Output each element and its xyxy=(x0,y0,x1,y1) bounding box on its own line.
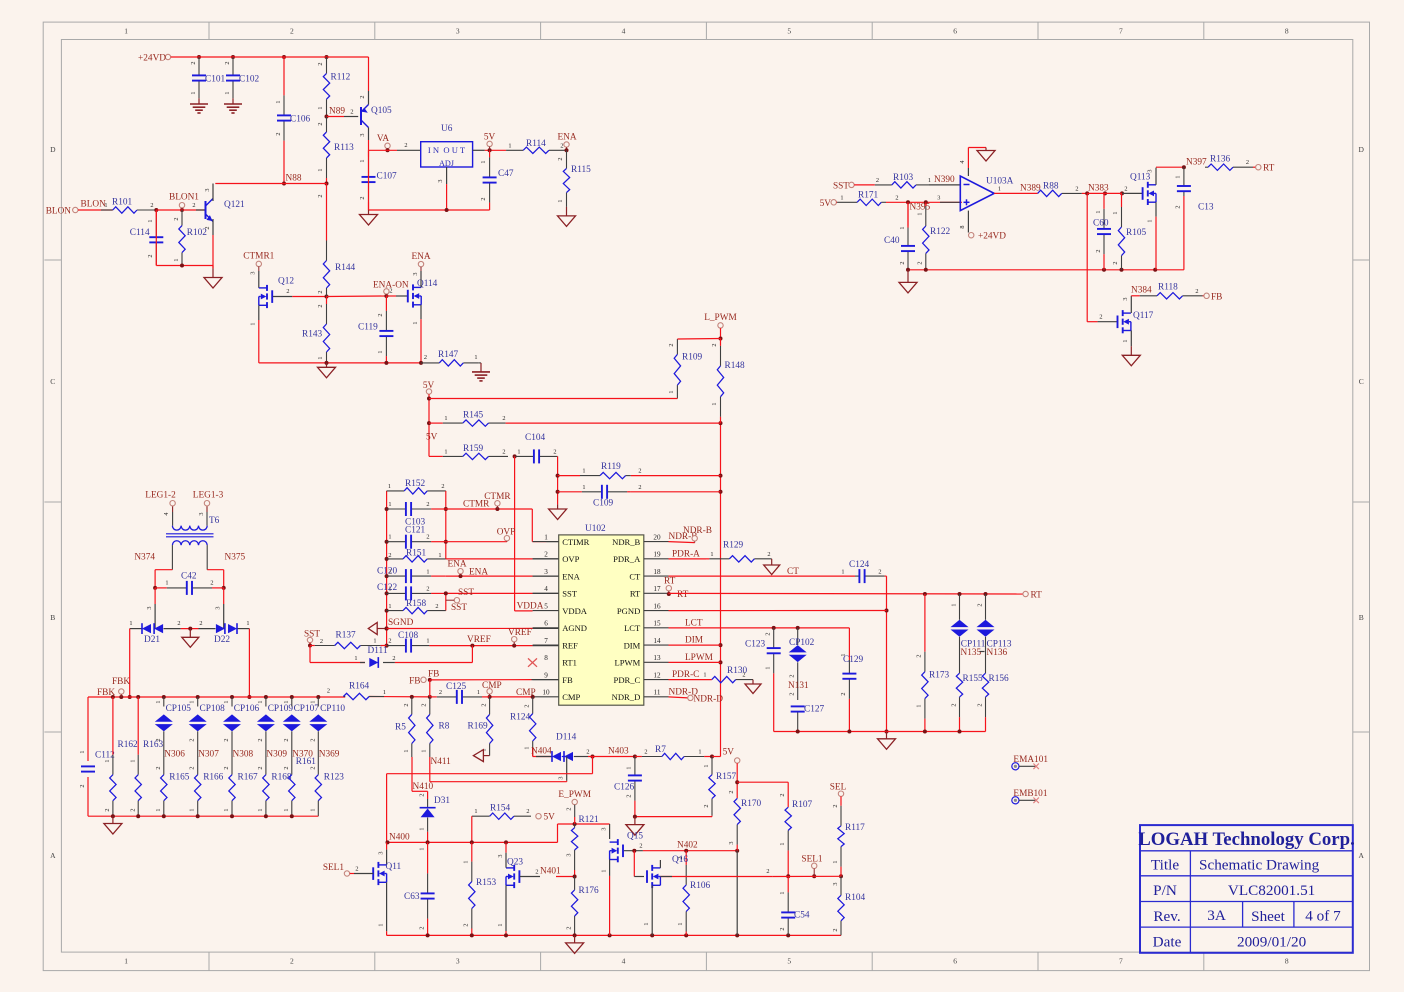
svg-text:1: 1 xyxy=(444,415,447,422)
port ENA (U102) xyxy=(447,560,466,577)
svg-text:9: 9 xyxy=(544,671,548,679)
wire N390 xyxy=(928,175,960,185)
capacitor C109 xyxy=(558,484,642,509)
svg-text:2: 2 xyxy=(1246,159,1249,166)
svg-text:1: 1 xyxy=(419,827,426,830)
svg-text:2: 2 xyxy=(210,580,213,587)
svg-text:R122: R122 xyxy=(930,227,950,237)
port FBK xyxy=(97,677,130,698)
svg-text:Q12: Q12 xyxy=(278,277,294,287)
svg-text:2: 2 xyxy=(779,927,786,930)
wire D2x center ground xyxy=(181,627,199,638)
svg-text:5V: 5V xyxy=(723,748,735,758)
svg-text:2: 2 xyxy=(129,808,136,811)
resistor R168 xyxy=(257,773,292,817)
resistor R109 xyxy=(668,339,702,399)
svg-text:5V: 5V xyxy=(544,813,556,823)
svg-text:1: 1 xyxy=(246,620,249,627)
diode D111 xyxy=(368,646,388,668)
svg-text:2: 2 xyxy=(1075,185,1078,192)
wire Q121 emitter rail xyxy=(156,210,213,268)
capacitor C13 xyxy=(1175,167,1214,212)
svg-text:20: 20 xyxy=(653,533,661,541)
svg-text:C42: C42 xyxy=(181,572,197,582)
svg-text:3: 3 xyxy=(456,27,460,36)
resistor R165 xyxy=(155,773,190,817)
svg-text:2: 2 xyxy=(481,703,488,706)
resistor R176 xyxy=(566,877,599,936)
svg-text:3: 3 xyxy=(215,606,222,609)
transistor Q15 (MOSFET) xyxy=(610,832,644,863)
wire U6 ground rail xyxy=(369,150,490,212)
capacitor C42 xyxy=(155,572,224,595)
wire R109 top xyxy=(677,338,720,341)
wire BLON xyxy=(78,200,113,211)
svg-text:C122: C122 xyxy=(377,583,397,593)
port CTMR xyxy=(484,492,511,509)
svg-text:1: 1 xyxy=(257,808,264,811)
svg-text:1: 1 xyxy=(104,202,107,209)
svg-text:2: 2 xyxy=(317,122,324,125)
wire Q117 drain N384 xyxy=(1122,285,1152,313)
svg-text:LCT: LCT xyxy=(685,618,703,628)
svg-text:N369: N369 xyxy=(319,750,340,760)
ground (triangle) C126 xyxy=(626,817,644,836)
port RT (pin17) xyxy=(664,577,689,600)
resistor R118 xyxy=(1140,282,1204,299)
svg-text:REF: REF xyxy=(562,640,578,650)
wire ENA-ON to Q114 gate xyxy=(386,295,407,297)
svg-text:R147: R147 xyxy=(438,350,458,360)
svg-text:1: 1 xyxy=(1147,219,1154,222)
capacitor C119 xyxy=(358,296,393,363)
svg-text:+24VD: +24VD xyxy=(138,54,166,64)
svg-text:2: 2 xyxy=(350,109,353,116)
capacitor C54 xyxy=(779,876,810,935)
symbol SGND arrow (R169) xyxy=(473,748,489,762)
transistor Q117 (MOSFET) xyxy=(1118,310,1154,333)
diode D21 (dual) xyxy=(129,620,180,645)
svg-text:DIM: DIM xyxy=(624,640,641,650)
wire D21 center tap xyxy=(154,604,156,629)
svg-text:C120: C120 xyxy=(377,567,397,577)
svg-text:CP108: CP108 xyxy=(200,704,226,714)
svg-text:R109: R109 xyxy=(682,353,702,363)
svg-text:R129: R129 xyxy=(723,541,743,551)
svg-text:2: 2 xyxy=(392,655,395,662)
svg-text:2: 2 xyxy=(779,793,786,796)
capacitor C63 xyxy=(404,842,435,935)
svg-text:CT: CT xyxy=(629,571,641,581)
wire opamp pin4 to ground xyxy=(959,148,986,177)
svg-text:1: 1 xyxy=(438,552,441,559)
transistor Q12 (MOSFET) xyxy=(259,277,295,309)
svg-text:SEL1: SEL1 xyxy=(323,863,345,873)
ground (triangle) rail2 xyxy=(878,732,896,750)
svg-text:1: 1 xyxy=(840,194,843,201)
port SST (R137) xyxy=(304,630,320,643)
svg-text:1: 1 xyxy=(421,749,428,752)
ground (triangle) C104 xyxy=(549,504,567,519)
svg-text:CP110: CP110 xyxy=(320,704,345,714)
transistor Q113 (MOSFET) xyxy=(1130,173,1156,206)
svg-text:1: 1 xyxy=(426,638,429,645)
wire ENA-ON row xyxy=(327,294,389,298)
svg-text:CP107: CP107 xyxy=(294,704,320,714)
svg-text:2: 2 xyxy=(917,261,924,264)
svg-text:4: 4 xyxy=(622,27,626,36)
svg-text:P/N: P/N xyxy=(1153,882,1177,899)
svg-text:1: 1 xyxy=(377,350,384,353)
resistor R130 xyxy=(712,666,753,683)
transistor Q23 (MOSFET) xyxy=(506,858,523,889)
svg-text:1: 1 xyxy=(1112,211,1119,214)
svg-text:2: 2 xyxy=(290,957,294,966)
svg-text:2: 2 xyxy=(404,142,407,149)
svg-text:2: 2 xyxy=(766,868,769,875)
resistor R169 xyxy=(468,697,493,752)
svg-text:7: 7 xyxy=(544,637,548,645)
svg-text:PGND: PGND xyxy=(617,606,640,616)
svg-text:2: 2 xyxy=(463,923,470,926)
svg-text:5V: 5V xyxy=(423,381,435,391)
svg-text:C63: C63 xyxy=(404,892,420,902)
svg-text:Q15: Q15 xyxy=(627,832,643,842)
svg-text:CT: CT xyxy=(787,567,799,577)
capacitor CP107 (polarized) xyxy=(283,697,319,748)
node N89 xyxy=(325,107,354,119)
svg-text:1: 1 xyxy=(703,672,706,679)
wire CTMR1 xyxy=(250,267,259,288)
svg-text:R144: R144 xyxy=(335,263,355,273)
resistor R157 xyxy=(703,757,736,816)
svg-text:SGND: SGND xyxy=(388,618,414,628)
svg-text:1: 1 xyxy=(582,484,585,491)
svg-text:1: 1 xyxy=(223,700,230,703)
svg-text:C121: C121 xyxy=(405,526,425,536)
svg-text:R104: R104 xyxy=(845,893,865,903)
svg-text:RT: RT xyxy=(664,577,676,587)
ground (triangle) D21/D22 xyxy=(182,637,199,647)
wire N403 row xyxy=(588,747,648,759)
wire N402 to rail xyxy=(736,851,738,936)
svg-text:3: 3 xyxy=(1122,297,1129,300)
svg-text:2: 2 xyxy=(435,603,438,610)
resistor R88 xyxy=(1038,181,1088,196)
port 5V (R145) xyxy=(423,381,435,394)
svg-text:N136: N136 xyxy=(987,648,1008,658)
wire N383 down to Q117 xyxy=(1087,193,1117,321)
resistor R123 xyxy=(309,773,344,817)
resistor R124 xyxy=(510,697,536,757)
svg-text:1: 1 xyxy=(383,689,386,696)
svg-text:1: 1 xyxy=(677,922,684,925)
port SST (U102) xyxy=(446,588,475,613)
wire Q23 source xyxy=(497,885,506,935)
svg-text:1: 1 xyxy=(557,199,564,202)
svg-text:2: 2 xyxy=(189,766,196,769)
wire C109 to LPWM net xyxy=(631,491,721,493)
svg-text:2: 2 xyxy=(426,501,429,508)
svg-text:1: 1 xyxy=(104,759,111,762)
svg-text:1: 1 xyxy=(517,448,520,455)
svg-text:1: 1 xyxy=(841,568,844,575)
capacitor C124 xyxy=(849,560,887,583)
svg-text:2: 2 xyxy=(767,551,770,558)
svg-text:C108: C108 xyxy=(398,631,418,641)
svg-text:2: 2 xyxy=(104,808,111,811)
port 5V (opamp) xyxy=(820,199,837,209)
svg-text:N401: N401 xyxy=(540,867,561,877)
svg-text:1: 1 xyxy=(388,603,391,610)
resistor R103 xyxy=(875,173,929,188)
wire LCT row xyxy=(669,618,850,660)
svg-text:B: B xyxy=(1359,613,1364,622)
svg-text:3: 3 xyxy=(437,179,444,182)
svg-text:1: 1 xyxy=(257,700,264,703)
svg-text:2: 2 xyxy=(638,468,641,475)
wire D22 to FBK rail xyxy=(247,629,251,699)
svg-text:D21: D21 xyxy=(144,635,160,645)
ground (triangle) opamp xyxy=(977,148,995,162)
svg-text:N308: N308 xyxy=(233,750,254,760)
svg-text:PDR-A: PDR-A xyxy=(672,550,700,560)
svg-text:N309: N309 xyxy=(266,750,287,760)
svg-text:1: 1 xyxy=(317,106,324,109)
capacitor CP109 (polarized) xyxy=(257,697,293,748)
svg-text:R106: R106 xyxy=(690,881,710,891)
node N369 xyxy=(309,748,340,775)
ground (triangle) R130 xyxy=(745,680,761,694)
svg-text:C124: C124 xyxy=(849,560,869,570)
svg-text:3: 3 xyxy=(728,841,735,844)
resistor R114 xyxy=(506,139,565,154)
svg-text:3: 3 xyxy=(497,854,504,857)
junction BLON1 node xyxy=(154,208,184,212)
svg-text:3A: 3A xyxy=(1207,907,1226,924)
wire NDR-B stub xyxy=(669,532,698,542)
svg-text:R117: R117 xyxy=(845,823,865,833)
svg-text:2: 2 xyxy=(586,749,589,756)
svg-text:C13: C13 xyxy=(1198,203,1214,213)
port FB (U102) xyxy=(409,670,439,687)
svg-text:3: 3 xyxy=(558,776,565,779)
svg-text:N135: N135 xyxy=(961,648,982,658)
wire N404 row xyxy=(531,747,552,757)
svg-text:VREF: VREF xyxy=(467,635,491,645)
svg-text:5V: 5V xyxy=(484,133,496,143)
svg-text:C123: C123 xyxy=(745,640,765,650)
svg-text:R8: R8 xyxy=(439,722,450,732)
svg-text:NDR_D: NDR_D xyxy=(612,692,641,702)
wire Q23 drain xyxy=(497,842,506,867)
svg-text:LEG1-2: LEG1-2 xyxy=(145,491,176,501)
svg-text:A: A xyxy=(50,851,56,860)
resistor R106 xyxy=(677,851,710,936)
svg-text:1: 1 xyxy=(477,689,480,696)
port SEL xyxy=(830,783,847,797)
capacitor C127 xyxy=(791,705,825,732)
svg-text:3: 3 xyxy=(601,827,608,830)
svg-text:3: 3 xyxy=(359,133,366,136)
svg-text:R164: R164 xyxy=(349,682,369,692)
resistor R5 xyxy=(395,697,415,757)
node N135 xyxy=(961,648,985,658)
ground (triangle) Q117 xyxy=(1122,355,1140,366)
wire opamp out N389 xyxy=(994,183,1041,193)
svg-text:1: 1 xyxy=(124,957,128,966)
port ENA-ON xyxy=(373,281,409,297)
svg-text:1: 1 xyxy=(359,159,366,162)
svg-text:3: 3 xyxy=(412,272,419,275)
svg-text:R137: R137 xyxy=(336,631,356,641)
svg-text:2: 2 xyxy=(257,738,264,741)
port +24VD (opamp) xyxy=(969,232,1007,242)
resistor R148 xyxy=(711,339,745,424)
resistor R152 xyxy=(387,479,446,494)
resistor R147 xyxy=(421,350,479,366)
svg-text:C119: C119 xyxy=(358,323,378,333)
port NDR-D xyxy=(688,694,724,704)
port ENA (R114) xyxy=(557,133,576,153)
svg-text:R167: R167 xyxy=(238,773,258,783)
svg-text:3: 3 xyxy=(198,512,205,515)
svg-text:C125: C125 xyxy=(446,682,466,692)
wire PDR-A xyxy=(669,550,707,560)
capacitor C114 xyxy=(130,210,164,266)
svg-text:PDR_A: PDR_A xyxy=(613,554,641,564)
svg-text:C127: C127 xyxy=(804,705,824,715)
svg-text:R118: R118 xyxy=(1158,282,1178,292)
resistor R173 xyxy=(916,594,950,732)
op-amp U103A xyxy=(960,176,1013,211)
svg-text:D: D xyxy=(50,145,56,154)
svg-text:SST: SST xyxy=(562,589,578,599)
svg-text:2: 2 xyxy=(765,632,772,635)
svg-text:SEL1: SEL1 xyxy=(801,855,823,865)
node N374 xyxy=(134,553,155,563)
svg-text:2: 2 xyxy=(224,61,231,64)
svg-text:2: 2 xyxy=(147,254,154,257)
svg-text:N88: N88 xyxy=(286,174,302,184)
svg-text:2: 2 xyxy=(480,197,487,200)
svg-text:SST: SST xyxy=(833,181,849,191)
wire BLON1 row xyxy=(156,202,205,210)
svg-text:2: 2 xyxy=(626,794,633,797)
wire N400 rail xyxy=(386,832,558,844)
svg-text:2: 2 xyxy=(1095,249,1102,252)
regulator U6 xyxy=(421,124,473,168)
svg-text:2: 2 xyxy=(668,343,675,346)
svg-text:AGND: AGND xyxy=(562,623,587,633)
svg-text:Q16: Q16 xyxy=(672,855,688,865)
svg-text:4: 4 xyxy=(544,585,548,593)
transistor Q16 (MOSFET) xyxy=(647,855,688,888)
svg-text:15: 15 xyxy=(653,620,661,628)
wire RT row xyxy=(669,592,1023,596)
svg-text:CP106: CP106 xyxy=(234,704,260,714)
svg-text:1: 1 xyxy=(283,700,290,703)
svg-text:CTMR1: CTMR1 xyxy=(243,252,274,262)
svg-text:2: 2 xyxy=(1195,288,1198,295)
svg-text:D114: D114 xyxy=(556,733,577,743)
port BLON xyxy=(46,207,78,217)
connector EMB101 xyxy=(1012,789,1048,804)
svg-text:2: 2 xyxy=(524,704,531,707)
ground (triangle) C107 xyxy=(360,210,378,225)
resistor R129 xyxy=(706,541,772,563)
svg-text:2: 2 xyxy=(789,692,796,695)
transistor Q114 (MOSFET) xyxy=(408,279,438,308)
svg-text:2: 2 xyxy=(177,620,180,627)
svg-text:R152: R152 xyxy=(405,479,425,489)
capacitor CP106 (polarized) xyxy=(223,697,259,748)
resistor R145 xyxy=(429,411,506,427)
svg-text:6: 6 xyxy=(953,957,957,966)
junction R7/R157/LPWM xyxy=(710,755,721,759)
svg-text:2: 2 xyxy=(359,95,366,98)
svg-text:1: 1 xyxy=(1175,175,1182,178)
wire Q12 ground rail xyxy=(259,361,423,365)
wire U6 ADJ xyxy=(437,167,447,210)
svg-text:2: 2 xyxy=(317,194,324,197)
svg-text:N397: N397 xyxy=(1186,157,1207,167)
svg-text:2: 2 xyxy=(317,304,324,307)
wire R157 bottom xyxy=(633,815,712,819)
wire SST stub xyxy=(308,638,323,648)
capacitor C108 xyxy=(387,631,430,653)
wire Q113 drain to N397 xyxy=(1147,157,1207,185)
svg-text:2: 2 xyxy=(377,313,384,316)
resistor R136 xyxy=(1205,155,1256,171)
svg-text:RT: RT xyxy=(1263,164,1275,174)
svg-text:1: 1 xyxy=(899,226,906,229)
svg-text:1: 1 xyxy=(917,212,924,215)
svg-text:2: 2 xyxy=(977,603,984,606)
wire CT vertical xyxy=(885,576,889,733)
wire N374 xyxy=(146,570,172,610)
junction R159/C104/VDDA xyxy=(513,454,517,458)
capacitor C101 xyxy=(190,57,225,98)
resistor R161 xyxy=(283,757,316,816)
wire Q16 source xyxy=(643,885,652,935)
svg-text:1: 1 xyxy=(544,533,548,541)
svg-text:1: 1 xyxy=(124,27,128,36)
svg-text:ENA: ENA xyxy=(562,571,580,581)
port E_PWM xyxy=(558,790,591,824)
wire N89 to Q105 base xyxy=(327,116,359,118)
svg-text:2: 2 xyxy=(79,784,86,787)
capacitor CP113 (polarized) xyxy=(977,594,1012,672)
svg-text:8: 8 xyxy=(1285,957,1289,966)
svg-text:Q105: Q105 xyxy=(371,106,392,116)
svg-text:BLON: BLON xyxy=(46,207,72,217)
wire U6 out to 5V xyxy=(473,148,507,152)
capacitor C107 xyxy=(359,150,397,210)
svg-text:E_PWM: E_PWM xyxy=(558,790,591,800)
svg-text:2: 2 xyxy=(1112,261,1119,264)
svg-text:C102: C102 xyxy=(239,75,259,85)
resistor R7 xyxy=(635,745,712,760)
node VA xyxy=(377,134,390,152)
svg-text:1: 1 xyxy=(463,860,470,863)
svg-text:BLON1: BLON1 xyxy=(169,193,199,203)
svg-text:1: 1 xyxy=(354,655,357,662)
svg-text:R115: R115 xyxy=(571,165,591,175)
ground (triangle) rail xyxy=(318,363,336,378)
svg-text:1: 1 xyxy=(403,749,410,752)
svg-text:2: 2 xyxy=(388,569,391,576)
